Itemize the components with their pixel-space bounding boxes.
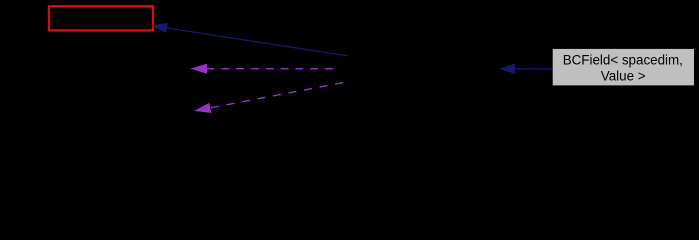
svg-text:Value >: Value >	[601, 68, 646, 83]
svg-text:BCField< spacedim,: BCField< spacedim,	[563, 53, 683, 68]
